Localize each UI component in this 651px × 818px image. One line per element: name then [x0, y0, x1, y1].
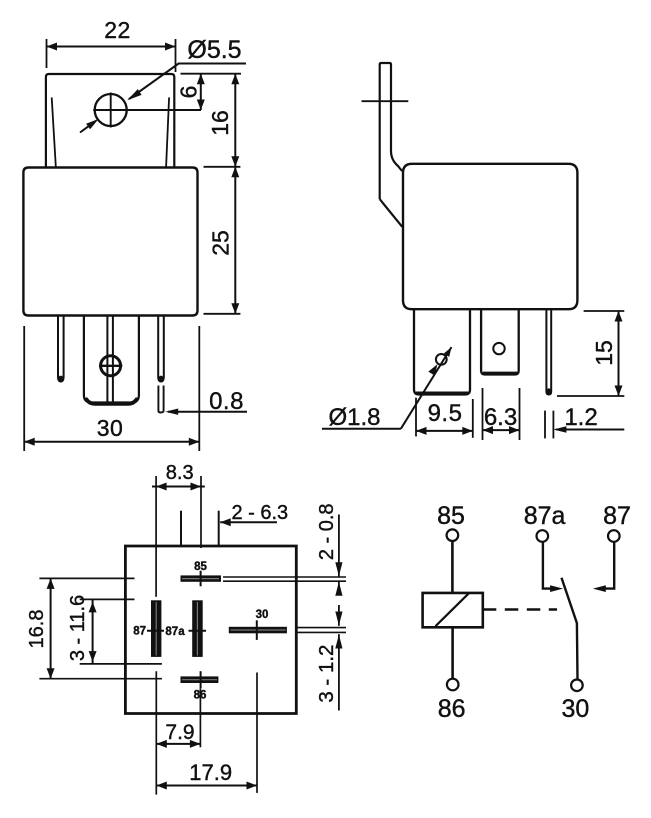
center pin rivet circle — [101, 356, 121, 376]
dim 9.5 line with arrows — [416, 427, 473, 435]
dim 9.5 extension right — [472, 399, 474, 438]
dim 8.3 extension right — [200, 476, 202, 548]
small arrow pointing at hole lower-left — [80, 119, 99, 133]
dim text 8.3 — [166, 462, 194, 484]
terminal slot 87 — [151, 600, 161, 657]
dim 30 extension line left — [23, 326, 25, 451]
dim text 22 — [104, 17, 131, 43]
dim 16.8 bottom extension — [39, 678, 161, 680]
svg-text:17.9: 17.9 — [189, 760, 232, 785]
footprint square outline — [125, 546, 296, 714]
dim 22 extension line right — [175, 39, 177, 72]
slot 87a centre tick — [189, 630, 207, 632]
mounting hole circle — [95, 94, 127, 126]
dim text 1.2 — [564, 404, 597, 431]
svg-text:1.2: 1.2 — [564, 404, 597, 431]
relay front view: mounting bracket tab outline — [46, 74, 174, 168]
dim 8.3 extension left — [155, 476, 157, 597]
front view right pin upper part — [158, 316, 164, 382]
dim 1.2 tick right — [552, 411, 554, 439]
middle pin thick bottom edge — [483, 372, 517, 375]
dim 22 line with arrows — [47, 43, 176, 51]
dim 15 top extension — [584, 310, 625, 312]
dim text 17.9 — [189, 760, 232, 785]
svg-text:87: 87 — [603, 502, 631, 530]
dim text 6.3 — [484, 404, 517, 431]
mounting hole horizontal centerline extending to 6-dim — [93, 109, 201, 111]
svg-text:9.5: 9.5 — [428, 400, 463, 427]
wire 87 with arrow — [593, 542, 614, 592]
svg-text:2 - 6.3: 2 - 6.3 — [231, 502, 288, 524]
dim 1.2 arrow — [553, 426, 624, 432]
schematic terminal circle 85 — [447, 529, 459, 541]
svg-text:85: 85 — [437, 502, 465, 530]
label 30 footprint — [256, 609, 269, 621]
dim text 0.8 — [209, 388, 244, 415]
label 86 footprint — [194, 690, 207, 702]
leader arrow from dia 5.5 label to hole — [127, 64, 246, 101]
schematic terminal circle 87 — [608, 530, 620, 542]
schematic label 85 — [437, 502, 465, 530]
mounting hole vertical centerline — [110, 93, 112, 128]
center pin thick bottom edge — [87, 400, 137, 404]
svg-text:16: 16 — [207, 110, 233, 136]
svg-text:2 - 0.8: 2 - 0.8 — [316, 503, 338, 560]
leader shelf dia 1.8 — [322, 428, 401, 430]
front view right pin thin tip — [158, 386, 163, 413]
schematic label 87a — [524, 502, 566, 530]
rivet horizontal crossbar — [99, 365, 122, 367]
dim 7.9 extension left — [155, 671, 157, 794]
dim 6.3 extension right — [519, 388, 521, 440]
schematic terminal circle 30 — [571, 680, 583, 692]
dim 25 line with arrows — [231, 167, 239, 314]
svg-text:87a: 87a — [165, 626, 185, 638]
center pin inner right line — [112, 316, 114, 404]
svg-text:30: 30 — [97, 415, 124, 441]
dim 2-6.3 tick right — [218, 511, 220, 546]
svg-text:6: 6 — [176, 86, 202, 99]
svg-text:3 - 11.6: 3 - 11.6 — [67, 595, 89, 661]
wire 87a with arrow — [543, 542, 563, 592]
dim text 3-1.2 rotated — [315, 645, 338, 703]
label 87 footprint — [133, 626, 146, 638]
dim 3-11.6 top extension — [80, 598, 135, 600]
dim 15 bottom extension — [557, 395, 624, 397]
svg-text:30: 30 — [561, 695, 589, 723]
middle pin hole circle — [493, 343, 504, 354]
dim 22 extension line left — [46, 39, 48, 68]
svg-text:87: 87 — [133, 626, 146, 638]
label 87a footprint — [165, 626, 185, 638]
front view left pin — [58, 316, 64, 382]
schematic terminal circle 87a — [537, 530, 549, 542]
side view wide pin — [414, 310, 470, 395]
wire coil to 86 — [451, 627, 454, 678]
side view bracket strip — [380, 63, 403, 227]
dim 6.3 line with arrows — [483, 426, 520, 434]
svg-text:15: 15 — [591, 340, 617, 366]
dim 30 extension line right — [198, 326, 200, 451]
schematic label 87 — [603, 502, 631, 530]
slot 30 thickness construction lines — [295, 628, 346, 633]
dim text 2-6.3 — [231, 502, 288, 524]
dim 7.9 line with arrows — [156, 740, 200, 748]
terminal slot 86 — [181, 676, 219, 683]
dim text 7.9 — [165, 721, 194, 744]
switch blade common — [562, 578, 578, 679]
svg-text:87a: 87a — [524, 502, 566, 530]
slot 87 centre tick — [147, 630, 164, 632]
dim text 16.8 rotated — [26, 610, 48, 649]
dim 1.2 tick left — [544, 411, 546, 439]
schematic label 86 — [438, 695, 466, 723]
body top extension line — [204, 166, 241, 168]
svg-text:7.9: 7.9 — [165, 721, 194, 744]
side view middle pin — [481, 310, 519, 375]
dim 17.9 line with arrows — [156, 782, 257, 790]
label dia 5.5 — [187, 36, 241, 64]
slot 30 centre tick — [256, 620, 258, 640]
extension line tab top to dims — [181, 73, 242, 75]
terminal slot 30 — [229, 627, 287, 634]
dim text 2-0.8 rotated — [316, 503, 338, 560]
slot 85 thickness construction lines — [223, 577, 346, 581]
leader dia1.8 diagonal with arrows — [401, 347, 452, 429]
dim 2-6.3 tick left — [180, 511, 182, 546]
dim 16.8 line with arrows — [47, 578, 55, 678]
dim 8.3 line with arrows — [152, 483, 205, 491]
dim text dia 1.8 — [328, 404, 380, 431]
schematic label 30 — [561, 695, 589, 723]
dim text 3-11.6 rotated — [67, 595, 89, 661]
svg-text:30: 30 — [256, 609, 269, 621]
slot 85 centre tick — [200, 571, 202, 587]
svg-text:8.3: 8.3 — [166, 462, 194, 484]
slot 86 centre tick — [200, 671, 202, 688]
dim 3-1.2 line with arrows — [335, 605, 342, 711]
dim 16.8 top extension — [39, 577, 134, 579]
svg-text:25: 25 — [208, 230, 234, 256]
dim 17.9 extension right — [256, 673, 258, 793]
relay body side outline — [403, 164, 577, 309]
dim text 9.5 — [428, 400, 463, 427]
svg-text:0.8: 0.8 — [209, 388, 244, 415]
dim 3-11.6 bottom extension — [80, 663, 162, 665]
bracket inner taper right edge — [166, 97, 169, 166]
front view center pin outline — [84, 316, 139, 403]
svg-text:Ø1.8: Ø1.8 — [328, 404, 380, 431]
relay body front outline — [23, 168, 197, 316]
svg-text:22: 22 — [104, 17, 131, 43]
bracket inner taper left edge — [52, 97, 56, 166]
dim 30 line with arrows — [24, 438, 199, 446]
dim 6 line with arrows — [197, 74, 205, 110]
dim 0.8 arrow and leader — [165, 409, 247, 415]
dim text 16 — [207, 110, 233, 136]
terminal slot 85 — [181, 575, 222, 581]
dim 16 line with arrows — [231, 74, 239, 167]
schematic terminal circle 86 — [447, 679, 459, 691]
svg-text:Ø5.5: Ø5.5 — [187, 36, 241, 64]
side view right thin pin — [546, 310, 551, 395]
svg-text:16.8: 16.8 — [26, 610, 48, 649]
dim text 30 — [97, 415, 124, 441]
dim 9.5 extension left — [415, 398, 417, 437]
dim 2-0.8 line with arrows — [335, 515, 342, 596]
coil diagonal stroke — [436, 593, 469, 626]
dim 2-6.3 arrow — [220, 518, 277, 526]
center pin inner left line — [106, 316, 108, 402]
body bottom extension line — [204, 313, 241, 315]
dim text 6 — [176, 86, 202, 99]
svg-text:85: 85 — [194, 561, 207, 573]
dim 6.3 extension left — [482, 388, 484, 440]
wide pin thick bottom edge — [416, 392, 468, 395]
dim text 15 — [591, 340, 617, 366]
svg-text:86: 86 — [438, 695, 466, 723]
terminal slot 87a — [192, 600, 203, 657]
actuation dashed link — [483, 608, 557, 610]
wire 85 to coil — [451, 541, 454, 593]
bracket centre tick — [362, 100, 409, 102]
coil U1 box — [423, 593, 483, 627]
dim text 25 — [208, 230, 234, 256]
dim 3-11.6 line with arrows — [89, 599, 97, 664]
dim 15 line with arrows — [615, 311, 623, 396]
wide pin hole circle — [436, 354, 447, 365]
svg-text:3 - 1.2: 3 - 1.2 — [315, 645, 338, 703]
dim 7.9 extension right — [199, 688, 201, 747]
svg-text:6.3: 6.3 — [484, 404, 517, 431]
label 85 footprint — [194, 561, 207, 573]
